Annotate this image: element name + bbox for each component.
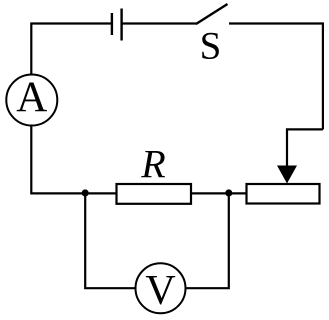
voltmeter V1 circle <box>136 263 186 313</box>
battery B1 long plate (positive) <box>120 9 122 41</box>
wire ammeter to bottom-left corner and to R <box>31 126 116 194</box>
wire jog to slider <box>287 129 323 167</box>
battery B1 short plate (negative) <box>111 13 113 35</box>
svg-text:S: S <box>200 25 222 68</box>
wire voltmeter branch right <box>186 193 229 288</box>
wire battery to switch <box>123 22 197 24</box>
wire top-left horizontal (battery negative to corner) <box>31 24 111 76</box>
svg-text:A: A <box>16 74 47 121</box>
node junction dot right <box>225 189 232 196</box>
wire R to rheostat <box>191 192 247 194</box>
svg-text:V: V <box>145 268 175 314</box>
ammeter A1 circle <box>6 75 57 126</box>
svg-text:R: R <box>140 142 165 187</box>
wire voltmeter branch left <box>85 193 135 288</box>
switch S lever (open) <box>196 4 228 24</box>
resistor R box <box>117 184 192 204</box>
node junction dot left <box>82 189 89 196</box>
rheostat box <box>247 184 320 204</box>
rheostat slider arrowhead <box>277 166 297 184</box>
wire switch to top-right corner and down right side <box>229 24 323 130</box>
